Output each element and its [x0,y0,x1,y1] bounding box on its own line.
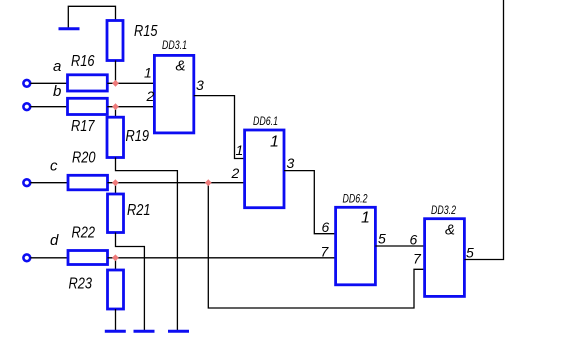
terminal a [23,80,30,87]
wire terminal c to R20 [30,182,68,184]
wire DD6.2 out to DD3.2 pin 6 [375,245,424,247]
wire terminal b to R17 [30,106,67,108]
wire R15 bottom to node 1 [115,61,117,84]
svg-text:3: 3 [196,77,204,93]
svg-text:2: 2 [146,88,155,104]
node junction a-R15 [112,80,119,87]
svg-text:c: c [50,158,58,175]
svg-text:&: & [176,58,186,75]
resistor R22 [68,251,108,265]
svg-text:R23: R23 [69,276,93,293]
wire terminal a to R16 [30,82,67,84]
wire R17 to DD3.1 pin 2 [107,106,154,108]
wire DD6.1 out to DD6.2 pin 6 [284,171,336,234]
terminal d [23,254,30,261]
wire R20 to DD6.1 pin 2 [108,182,245,184]
wire R22 to DD6.2 pin 7 [108,257,336,259]
wire c branch to DD3.2 pin 7 [208,183,424,308]
svg-text:1: 1 [144,65,152,81]
wire DD3.2 out to top edge [464,0,503,260]
svg-text:7: 7 [321,244,330,260]
svg-text:b: b [53,83,61,100]
svg-text:R21: R21 [127,202,151,219]
svg-text:R19: R19 [126,128,150,145]
terminal c [23,179,30,186]
node junction b-R19 [112,103,119,110]
resistor R17 [68,98,108,114]
wire R23 bottom to ground [115,309,117,331]
svg-text:d: d [50,232,59,249]
svg-text:DD6.1: DD6.1 [253,116,278,128]
wire R16 to DD3.1 pin 1 [107,82,154,84]
gate DD6.1 [245,130,284,208]
svg-text:1: 1 [270,134,279,151]
wire R21 bottom to ground [116,233,145,331]
wire node c to R21 top [115,183,117,194]
gate DD6.2 [336,207,376,284]
svg-text:6: 6 [322,219,330,235]
svg-text:6: 6 [410,232,418,248]
svg-text:1: 1 [236,142,244,158]
svg-text:3: 3 [287,155,295,171]
ground bar under R21 line [134,330,155,333]
svg-text:R15: R15 [134,23,158,40]
wire from power bar to R15 top [68,6,115,28]
svg-text:5: 5 [466,245,474,261]
gate DD3.1 [154,55,193,132]
terminal b [23,103,30,110]
svg-text:DD3.2: DD3.2 [431,205,456,217]
svg-text:&: & [445,222,455,239]
node junction c-branch [205,179,212,186]
resistor R21 [108,194,124,233]
ground bar under R23 [105,330,126,333]
svg-text:a: a [53,58,61,75]
resistor R15 [107,21,123,61]
node junction c-R21 [112,179,119,186]
svg-text:DD3.1: DD3.1 [162,40,187,52]
power rail bar [59,27,80,30]
wire R19 bottom to ground [116,158,178,331]
wire node b to R19 top [115,107,117,118]
ground bar under R19 line [168,330,189,333]
node junction d-R23 [112,254,119,261]
svg-text:R16: R16 [71,53,95,70]
svg-text:R22: R22 [72,225,96,242]
svg-text:5: 5 [378,231,386,247]
wire node d to R23 top [115,258,117,270]
wire DD3.1 out to DD6.1 pin 1 [194,96,245,159]
svg-text:R20: R20 [72,150,96,167]
resistor R19 [107,117,124,157]
gate DD3.2 [425,219,465,297]
svg-text:R17: R17 [71,118,95,135]
resistor R16 [68,75,108,91]
resistor R20 [68,175,108,190]
svg-text:2: 2 [231,165,240,181]
svg-text:7: 7 [413,251,422,267]
svg-text:1: 1 [361,210,370,227]
svg-text:DD6.2: DD6.2 [343,194,368,206]
resistor R23 [108,270,124,309]
wire terminal d to R22 [30,257,68,259]
